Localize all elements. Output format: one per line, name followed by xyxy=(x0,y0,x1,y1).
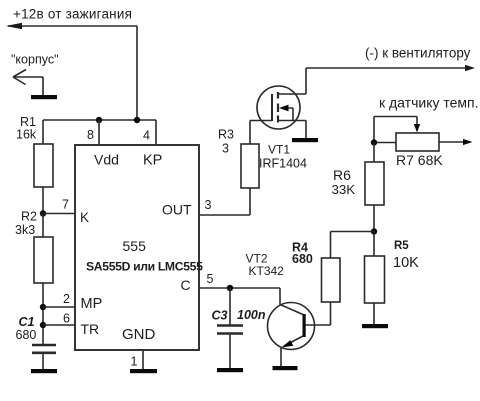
label к датчику темп. xyxy=(379,95,479,111)
pin label KP xyxy=(143,153,162,169)
resistor R6 xyxy=(365,162,384,205)
node junction +12V drop xyxy=(134,117,140,123)
resistor R3 xyxy=(241,144,259,188)
node junction pin8 rail xyxy=(96,117,102,123)
wire divider node to R4 xyxy=(331,232,375,259)
wire R7 left to node xyxy=(374,142,396,144)
label R1 16k xyxy=(16,115,37,142)
label SA555D или LMC555 xyxy=(86,260,203,274)
VT2 emitter lead with arrow xyxy=(281,336,303,366)
svg-text:VT1: VT1 xyxy=(268,143,290,157)
label 555 xyxy=(123,238,147,254)
label R2 3k3 xyxy=(15,210,37,238)
transistor Q1 VT1 MOSFET circle xyxy=(257,86,300,129)
svg-text:KP: KP xyxy=(143,153,162,169)
wire pin 6 stub xyxy=(43,324,75,326)
label VT1 IRF1404 xyxy=(259,143,307,171)
wire +12V supply line with left arrow xyxy=(6,23,137,120)
pin label K xyxy=(80,210,89,225)
VT1 source lead xyxy=(278,121,306,139)
ground (chassis) xyxy=(31,95,57,99)
svg-text:3k3: 3k3 xyxy=(15,223,35,237)
wire R6 bottom to divider node xyxy=(373,205,375,232)
resistor R5 xyxy=(365,256,385,303)
pin number 2 xyxy=(63,292,70,306)
node divider junction xyxy=(371,228,377,234)
svg-text:TR: TR xyxy=(81,321,100,337)
wire pin 2 stub xyxy=(43,306,75,308)
node pin7 junction xyxy=(40,210,46,216)
label C1 680 xyxy=(16,315,37,342)
svg-text:R7 68K: R7 68K xyxy=(396,152,443,168)
svg-text:MP: MP xyxy=(81,296,103,312)
ground (C3) xyxy=(217,368,243,372)
wire drain to fan with right arrow xyxy=(306,65,475,71)
svg-text:KT342: KT342 xyxy=(249,264,285,278)
wire C3 top lead xyxy=(229,288,231,325)
svg-text:к датчику темп.: к датчику темп. xyxy=(379,95,479,111)
svg-text:6: 6 xyxy=(63,312,70,326)
pin number 6 xyxy=(63,312,70,326)
svg-text:100n: 100n xyxy=(237,308,266,322)
potentiometer R7 xyxy=(396,133,439,151)
VT1 gate bar xyxy=(271,94,273,121)
svg-text:8: 8 xyxy=(87,128,94,142)
svg-text:1: 1 xyxy=(131,355,138,369)
wire R2 bottom through MP TR nodes to C1 xyxy=(42,283,44,344)
node pin2 junction xyxy=(40,304,46,310)
label R3 3 xyxy=(218,128,234,156)
resistor R1 xyxy=(34,144,53,187)
label R6 33K xyxy=(332,167,356,197)
svg-text:5: 5 xyxy=(207,272,214,286)
ground (VT2 emitter) xyxy=(273,366,298,370)
VT1 channel bar segments xyxy=(277,92,279,123)
svg-text:OUT: OUT xyxy=(162,202,192,218)
wire R5 to ground xyxy=(373,303,375,324)
wire pin 5 to C3 and VT2 collector xyxy=(199,287,280,289)
wire R7 right output with arrow xyxy=(439,139,473,145)
pin number 1 with underline xyxy=(131,355,138,369)
svg-text:+12в от зажигания: +12в от зажигания xyxy=(13,7,132,22)
label (-) к вентилятору xyxy=(365,46,471,61)
wire C1 to ground xyxy=(42,354,44,369)
capacitor C3 xyxy=(217,326,243,334)
svg-text:10K: 10K xyxy=(393,255,419,271)
VT1 body stub with arrow xyxy=(279,105,293,121)
pin label TR xyxy=(81,321,100,337)
wire pin7 node to R2 xyxy=(42,214,44,238)
svg-text:680: 680 xyxy=(292,252,313,266)
resistor R4 xyxy=(322,258,341,302)
pin number 4 xyxy=(143,129,150,143)
svg-text:33K: 33K xyxy=(332,182,356,197)
pin number 7 xyxy=(62,198,69,212)
resistor R2 xyxy=(34,237,53,283)
pin label GND xyxy=(122,326,156,343)
wire C3 to ground xyxy=(229,334,231,368)
wire node to R6 xyxy=(373,143,375,163)
svg-text:Vdd: Vdd xyxy=(94,152,119,168)
ground (pin 1) xyxy=(130,369,157,373)
wire pin 3 OUT to R3 xyxy=(199,188,250,215)
wire R1 top lead xyxy=(42,120,44,144)
wire R7 wiper with down arrow xyxy=(374,117,420,143)
svg-text:C3: C3 xyxy=(212,309,228,323)
wire Vdd top rail xyxy=(43,119,156,121)
pin 4 stub xyxy=(155,120,157,145)
svg-text:C: C xyxy=(181,277,191,293)
svg-text:3: 3 xyxy=(205,198,212,212)
wire chassis arrow xyxy=(13,70,43,96)
svg-text:GND: GND xyxy=(122,326,156,343)
label +12в от зажигания xyxy=(13,7,132,22)
svg-text:4: 4 xyxy=(143,129,150,143)
VT2 base bar xyxy=(303,314,306,337)
svg-text:C1: C1 xyxy=(19,315,35,329)
wire R1 bottom to pin7 node xyxy=(42,187,44,214)
label C3 100n xyxy=(212,308,266,323)
svg-text:K: K xyxy=(80,210,89,225)
op-amp U1 555 IC body xyxy=(75,145,199,350)
node pin6 junction xyxy=(40,322,46,328)
label VT2 KT342 xyxy=(246,252,285,279)
svg-text:3: 3 xyxy=(222,142,229,156)
svg-text:IRF1404: IRF1404 xyxy=(259,157,307,171)
node C3 junction xyxy=(227,285,233,291)
pin number 5 xyxy=(207,272,214,286)
wire pin 1 to ground xyxy=(142,350,144,369)
ground (VT1 source) xyxy=(292,138,318,142)
pin number 8 xyxy=(87,128,94,142)
label R5 xyxy=(394,240,409,252)
label "корпус" xyxy=(11,53,59,67)
svg-text:R5: R5 xyxy=(394,240,409,252)
capacitor C1 xyxy=(32,345,56,353)
label 10K xyxy=(393,255,419,271)
transistor Q2 VT2 circle xyxy=(268,303,315,350)
svg-text:SA555D или LMC555: SA555D или LMC555 xyxy=(86,260,203,274)
svg-text:"корпус": "корпус" xyxy=(11,53,59,67)
pin 8 stub xyxy=(98,120,100,145)
pin label C xyxy=(181,277,191,293)
svg-text:2: 2 xyxy=(63,292,70,306)
svg-text:16k: 16k xyxy=(16,128,37,142)
ground (R5) xyxy=(362,324,388,328)
wire R4 bottom to VT2 base xyxy=(306,302,331,325)
svg-text:555: 555 xyxy=(123,238,147,254)
svg-text:R3: R3 xyxy=(218,128,234,142)
wire divider node to R5 xyxy=(373,232,375,257)
node R6 R7 junction xyxy=(371,139,377,145)
wire pin 7 stub xyxy=(43,213,75,215)
wire R3 top to gate xyxy=(250,121,272,145)
svg-text:7: 7 xyxy=(62,198,69,212)
svg-text:(-) к вентилятору: (-) к вентилятору xyxy=(365,46,471,61)
VT1 drain lead xyxy=(278,68,306,94)
pin number 3 xyxy=(205,198,212,212)
label R7 68K xyxy=(396,152,443,168)
svg-text:R2: R2 xyxy=(21,210,37,224)
ground (C1) xyxy=(31,369,57,373)
pin label MP xyxy=(81,296,103,312)
pin label Vdd xyxy=(94,152,119,168)
pin label OUT xyxy=(162,202,192,218)
svg-text:680: 680 xyxy=(16,328,37,342)
VT2 collector lead xyxy=(280,288,303,315)
svg-text:R6: R6 xyxy=(333,167,351,183)
label R4 680 xyxy=(292,241,313,267)
